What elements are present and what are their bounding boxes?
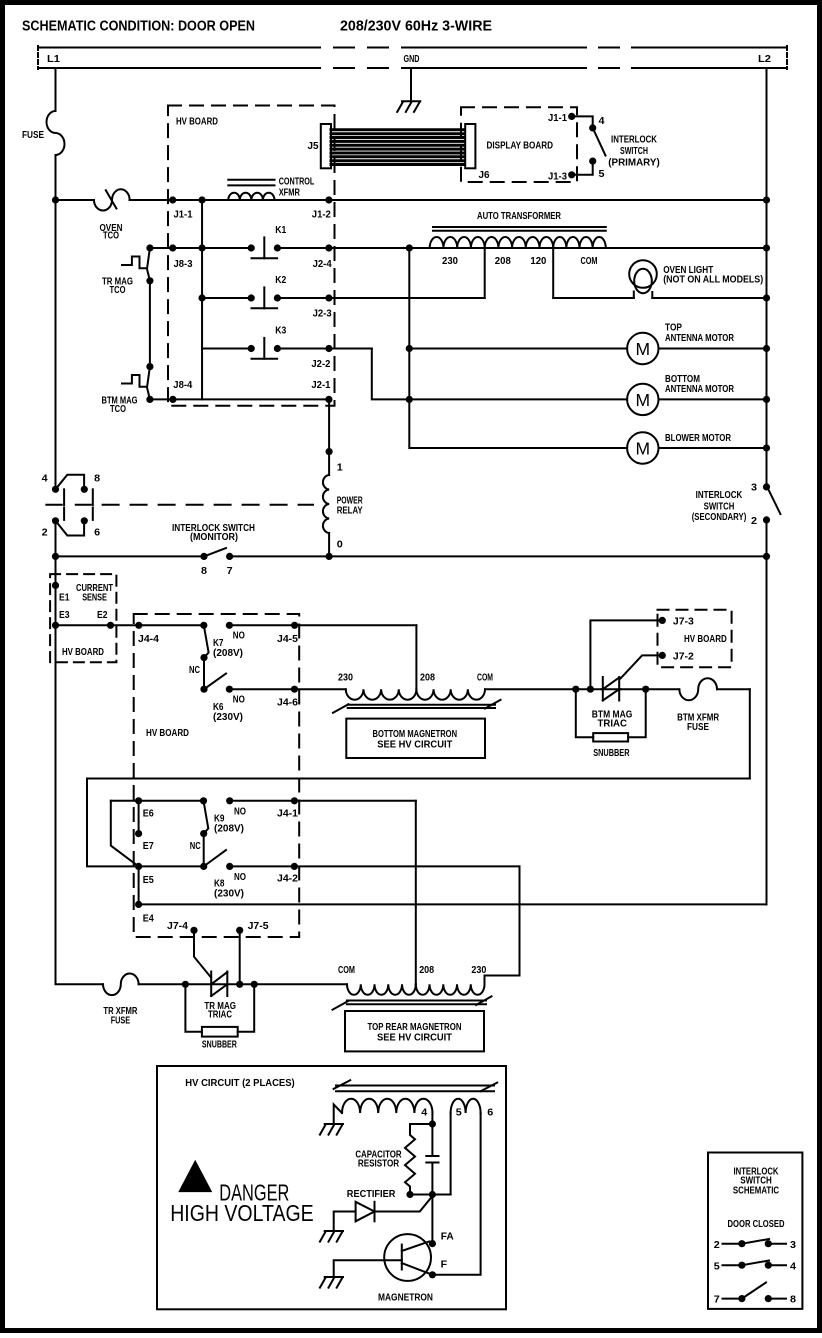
wire J2-2 jog down to bottom antenna row: [372, 349, 410, 400]
svg-text:NO: NO: [234, 805, 246, 817]
K9 NC contact: [200, 830, 207, 837]
switch blade (open): [204, 548, 226, 556]
junction node: [326, 448, 333, 455]
svg-text:J2-4: J2-4: [313, 258, 332, 270]
svg-text:5: 5: [714, 1260, 720, 1272]
relay K9 common: [200, 797, 207, 804]
svg-text:E2: E2: [97, 609, 108, 621]
transformer CONTROL XFMR: [228, 175, 314, 200]
snubber loop: [576, 689, 593, 737]
svg-text:COM: COM: [581, 255, 598, 267]
svg-text:COM: COM: [338, 964, 355, 976]
svg-text:E4: E4: [143, 913, 154, 925]
svg-text:J2-2: J2-2: [311, 358, 330, 370]
svg-text:230: 230: [471, 964, 486, 976]
svg-text:L1: L1: [47, 53, 60, 65]
svg-text:FUSE: FUSE: [22, 129, 44, 141]
svg-text:BLOWER MOTOR: BLOWER MOTOR: [665, 432, 731, 444]
wire E6 detour to E5: [111, 801, 139, 867]
junction motor feed vertical: [406, 244, 413, 251]
svg-text:(230V): (230V): [214, 887, 244, 899]
HV BOARD (triac driver) dashed box: [658, 610, 732, 667]
wire E5 row: [139, 865, 204, 867]
node J7-4: [190, 927, 197, 934]
wire NC link: [203, 834, 205, 867]
interlock switch monitor terminal 2: [52, 517, 59, 524]
svg-text:M: M: [636, 339, 651, 359]
wire GND drop: [410, 68, 412, 101]
node J1-1 (display board): [568, 113, 575, 120]
CURRENT SENSE dashed box: [50, 574, 116, 662]
svg-text:NO: NO: [234, 871, 246, 883]
svg-text:2: 2: [751, 515, 757, 527]
wire K6 NO / J4-6 row to transformer: [229, 688, 345, 690]
relay contact K3: [248, 325, 287, 359]
svg-text:L2: L2: [758, 53, 771, 65]
wire triac to fuse: [621, 688, 678, 690]
svg-text:7: 7: [714, 1294, 720, 1306]
node J1-1: [169, 196, 176, 203]
fuse BTM XFMR FUSE: [679, 678, 717, 700]
resistor (capacitor resistor): [405, 1124, 432, 1195]
wire J7-2 gate: [621, 655, 663, 678]
lamp OVEN LIGHT: [629, 260, 657, 298]
svg-text:M: M: [636, 390, 651, 410]
node J8-3: [169, 244, 176, 251]
wire lamp to L2: [652, 297, 766, 299]
connector J6: [465, 124, 475, 168]
svg-text:230: 230: [442, 255, 458, 267]
svg-text:FUSE: FUSE: [687, 721, 709, 733]
node F: [429, 1271, 436, 1278]
thermal cutout TR MAG TCO: [147, 248, 150, 281]
svg-text:J8-3: J8-3: [174, 258, 193, 270]
svg-text:208: 208: [419, 964, 434, 976]
transformer TOP REAR MAGNETRON primary: [333, 964, 492, 1010]
svg-text:6: 6: [487, 1107, 493, 1119]
wire K2 row left: [202, 297, 251, 299]
wire left rail to bottom row: [56, 625, 104, 984]
svg-text:(208V): (208V): [213, 647, 243, 659]
wire NO to J4-1 and down: [230, 800, 416, 802]
svg-text:0: 0: [337, 538, 343, 550]
svg-text:J1-1: J1-1: [174, 209, 193, 221]
svg-text:E5: E5: [143, 874, 154, 886]
svg-text:8: 8: [201, 565, 207, 577]
svg-text:NC: NC: [190, 840, 201, 852]
svg-text:TCO: TCO: [110, 403, 126, 415]
interlock switch secondary contact 2: [763, 516, 770, 523]
K7 NO contact: [226, 622, 233, 629]
svg-text:INTERLOCK: INTERLOCK: [611, 134, 657, 146]
node TR MAG TCO bottom: [146, 277, 153, 284]
junction L1/main row: [52, 196, 59, 203]
svg-text:5: 5: [599, 168, 605, 180]
wire main row to L2: [130, 199, 767, 201]
svg-text:K2: K2: [275, 274, 286, 286]
svg-text:HIGH VOLTAGE: HIGH VOLTAGE: [170, 1200, 314, 1226]
row 2-3 (closed): [714, 1239, 796, 1251]
K6 NO contact: [226, 686, 233, 693]
svg-text:J1-2: J1-2: [312, 209, 331, 221]
wire K1 feed row (J8-3): [150, 247, 251, 249]
junction snubber left: [572, 686, 579, 693]
ground: [320, 1124, 343, 1135]
connector J5: [321, 124, 331, 168]
svg-text:GND: GND: [404, 53, 420, 65]
svg-text:6: 6: [94, 527, 100, 539]
svg-text:(NOT ON ALL MODELS): (NOT ON ALL MODELS): [663, 273, 763, 285]
svg-text:7: 7: [227, 565, 233, 577]
svg-text:208: 208: [420, 672, 435, 684]
thermal cutout OVEN TCO: [94, 189, 130, 210]
svg-text:8: 8: [790, 1294, 796, 1306]
svg-text:DOOR CLOSED: DOOR CLOSED: [728, 1218, 785, 1230]
svg-text:FUSE: FUSE: [111, 1014, 130, 1026]
svg-text:1: 1: [337, 462, 343, 474]
svg-text:5: 5: [456, 1107, 462, 1119]
svg-text:3: 3: [751, 482, 757, 494]
interlock switch primary contact 5: [589, 158, 596, 165]
wire pin5 down: [450, 1113, 452, 1195]
svg-text:RECTIFIER: RECTIFIER: [347, 1188, 396, 1200]
svg-text:RELAY: RELAY: [337, 505, 363, 517]
ground symbol (chassis): [397, 101, 420, 112]
wire fuse to main row: [55, 155, 57, 200]
svg-text:HV BOARD: HV BOARD: [62, 646, 104, 658]
triac TR MAG TRIAC: [211, 972, 227, 997]
svg-text:8: 8: [94, 473, 100, 485]
resistor SNUBBER: [593, 733, 628, 741]
triac BTM MAG TRIAC: [603, 677, 619, 701]
junction snubber right: [642, 686, 649, 693]
K8 NO contact: [226, 863, 233, 870]
node J4-5: [291, 622, 298, 629]
wire fuse to corner: [717, 688, 750, 690]
filament winding: [451, 1099, 481, 1113]
junction power relay 0: [326, 553, 333, 560]
HV BOARD (lower) dashed box: [134, 614, 300, 937]
magnetron: [334, 1234, 431, 1281]
DISPLAY BOARD dashed box: [461, 107, 577, 182]
node E5: [135, 863, 142, 870]
wire J4-2 down to 230 end: [485, 866, 520, 984]
svg-text:K1: K1: [275, 224, 286, 236]
svg-text:4: 4: [42, 473, 48, 485]
svg-text:HV BOARD: HV BOARD: [176, 116, 218, 128]
svg-text:J6: J6: [479, 169, 490, 181]
ribbon cable J5-J6: [331, 130, 465, 165]
svg-text:E7: E7: [143, 840, 154, 852]
wire relay feed vertical: [201, 200, 203, 399]
node J4-4: [135, 622, 142, 629]
svg-text:J1-3: J1-3: [548, 170, 567, 182]
power relay coil: [323, 462, 363, 557]
wire E3-E2-J4-4 row: [56, 624, 204, 626]
wire F to pin 6: [432, 1113, 480, 1275]
ground: [320, 1231, 343, 1242]
svg-text:(MONITOR): (MONITOR): [190, 531, 238, 543]
K9 NO contact: [226, 797, 233, 804]
node J2-3: [325, 294, 332, 301]
K7 blade: [204, 625, 209, 657]
wire K8 NO / J4-2 row: [230, 865, 520, 867]
wire K3 left from feed vertical: [202, 348, 251, 350]
svg-text:COM: COM: [477, 672, 493, 684]
wire J7-4 gate: [194, 930, 211, 977]
relay contact K2: [248, 274, 287, 308]
diode RECTIFIER: [334, 1196, 433, 1231]
junction J7-5 drop: [236, 981, 243, 988]
svg-text:TRIAC: TRIAC: [598, 718, 628, 730]
wire oven light row: [553, 297, 634, 299]
svg-text:J8-4: J8-4: [173, 379, 192, 391]
svg-text:(208V): (208V): [214, 823, 244, 835]
wire 230 tap: [484, 248, 486, 298]
power bus bottom line: [38, 67, 300, 69]
node J1-3: [568, 171, 575, 178]
svg-text:E1: E1: [59, 591, 70, 603]
svg-text:230: 230: [338, 672, 353, 684]
svg-text:J4-6: J4-6: [277, 697, 298, 709]
wire contact 5 to J1-3: [572, 161, 593, 175]
svg-text:HV BOARD: HV BOARD: [146, 727, 189, 739]
svg-text:208/230V 60Hz 3-WIRE: 208/230V 60Hz 3-WIRE: [340, 19, 492, 35]
wire pin4 down: [431, 1113, 433, 1195]
wire J2-1 row: [150, 398, 329, 400]
node BTM MAG TCO bottom / J8-4 row: [146, 396, 153, 403]
thermal cutout BTM MAG TCO: [147, 367, 150, 400]
motor BOTTOM ANTENNA MOTOR: [409, 384, 766, 415]
transformer AUTO TRANSFORMER: [430, 210, 606, 267]
junction L2: [763, 553, 770, 560]
node row: [410, 1194, 451, 1196]
wire K3 out / J2-2 row: [277, 348, 371, 350]
node J7-3: [659, 617, 666, 624]
node E6: [135, 797, 142, 804]
wire NO to J4-5: [229, 624, 416, 626]
fuse FUSE (line fuse): [47, 111, 65, 155]
node E1: [52, 582, 59, 589]
mechanical link dashed: [103, 504, 313, 506]
wire return loop down: [749, 689, 751, 778]
junction L2/main row: [763, 196, 770, 203]
wire bottom row: [139, 983, 347, 985]
motor TOP ANTENNA MOTOR: [409, 333, 766, 364]
junction snubber right: [251, 981, 258, 988]
snubber loop: [185, 984, 202, 1031]
svg-text:SNUBBER: SNUBBER: [593, 747, 630, 759]
monitor switch contact 7: [226, 553, 233, 560]
svg-text:2: 2: [42, 527, 48, 539]
svg-text:SCHEMATIC CONDITION: DOOR OPEN: SCHEMATIC CONDITION: DOOR OPEN: [22, 19, 255, 35]
power bus L1-GND-L2 top line: [38, 47, 300, 49]
wire E6 row: [111, 800, 204, 802]
svg-text:(230V): (230V): [213, 711, 243, 723]
svg-text:SEE HV CIRCUIT: SEE HV CIRCUIT: [377, 1032, 453, 1044]
svg-text:J2-3: J2-3: [313, 308, 332, 320]
svg-text:4: 4: [790, 1260, 796, 1272]
svg-text:TRIAC: TRIAC: [208, 1009, 232, 1021]
wire left rail upper: [55, 200, 57, 489]
HV transformer secondary core: [334, 1080, 498, 1091]
motor BLOWER MOTOR: [627, 432, 766, 463]
junction relay feed vertical / K1 row: [198, 244, 205, 251]
wire K1 out / J2-4 row to auto transformer and L2: [277, 247, 766, 249]
junction snubber left: [182, 981, 189, 988]
junction main row / relay feed vertical: [198, 196, 205, 203]
junction K2 row: [198, 294, 205, 301]
svg-text:SWITCH: SWITCH: [620, 145, 648, 157]
bus right terminal mark: [786, 46, 788, 69]
svg-text:XFMR: XFMR: [279, 186, 300, 198]
relay K7 common: [200, 622, 207, 629]
node J7-2: [659, 652, 666, 659]
svg-text:K3: K3: [275, 325, 286, 337]
wire K2 out / J2-3 row to 230 tap: [277, 297, 484, 299]
node J4-1: [291, 797, 298, 804]
svg-text:ANTENNA MOTOR: ANTENNA MOTOR: [665, 383, 734, 395]
junction bottom antenna row: [406, 396, 413, 403]
svg-text:SENSE: SENSE: [82, 591, 107, 603]
svg-text:2: 2: [714, 1239, 720, 1251]
svg-text:J7-3: J7-3: [673, 616, 694, 628]
wire J7-5 drop: [239, 930, 241, 984]
row 5-4 (closed): [714, 1260, 796, 1272]
svg-text:(PRIMARY): (PRIMARY): [608, 156, 660, 168]
wire monitor row left: [56, 555, 205, 557]
svg-text:MAGNETRON: MAGNETRON: [378, 1292, 433, 1304]
relay K8 common: [200, 863, 207, 870]
node E7: [135, 830, 142, 837]
wire J7-3 to triac row: [590, 620, 662, 689]
relay contact K1: [248, 224, 287, 258]
wire left rail to monitor row: [55, 521, 57, 626]
wire TCO chain vertical: [149, 281, 151, 367]
svg-text:INTERLOCK: INTERLOCK: [696, 489, 743, 501]
ground: [320, 1277, 343, 1288]
junction top antenna row: [406, 345, 413, 352]
resistor SNUBBER: [202, 1027, 238, 1037]
svg-text:J4-4: J4-4: [138, 633, 159, 645]
svg-text:(SECONDARY): (SECONDARY): [692, 511, 747, 523]
interlock switch primary contact 4: [589, 124, 596, 131]
svg-text:SEE HV CIRCUIT: SEE HV CIRCUIT: [377, 738, 453, 750]
junction L2: [763, 294, 770, 301]
svg-text:4: 4: [421, 1107, 427, 1119]
svg-text:J4-5: J4-5: [277, 633, 298, 645]
switch blade (open): [593, 128, 606, 156]
interlock switch monitor terminal 8: [81, 486, 88, 493]
wire J1-1 to contact 4: [572, 116, 593, 128]
svg-text:J7-4: J7-4: [167, 920, 188, 932]
svg-text:J7-5: J7-5: [248, 920, 269, 932]
junction monitor row left: [52, 553, 59, 560]
svg-text:J5: J5: [308, 140, 319, 152]
svg-text:J4-2: J4-2: [277, 873, 298, 885]
svg-text:E6: E6: [143, 808, 154, 820]
svg-text:ANTENNA MOTOR: ANTENNA MOTOR: [665, 332, 734, 344]
svg-text:E3: E3: [59, 609, 70, 621]
svg-text:HV CIRCUIT (2 PLACES): HV CIRCUIT (2 PLACES): [185, 1077, 294, 1089]
fuse TR XFMR FUSE: [103, 974, 139, 996]
wire through triac: [602, 688, 622, 690]
wire NC link: [203, 658, 205, 690]
transformer (bottom magnetron primary): [333, 672, 501, 713]
K7 NC contact: [200, 654, 207, 661]
wire E5-E4 link: [138, 866, 140, 904]
node J2-1: [325, 396, 332, 403]
svg-text:TCO: TCO: [110, 284, 126, 296]
node BTM MAG TCO top: [146, 363, 153, 370]
wire E6-E7 link: [138, 801, 140, 834]
HV CIRCUIT box: [157, 1066, 506, 1309]
svg-text:NO: NO: [233, 629, 245, 641]
switch blade (open): [769, 491, 780, 514]
svg-text:SNUBBER: SNUBBER: [202, 1038, 237, 1050]
wire main row left: [56, 199, 95, 201]
monitor switch contact 8: [200, 553, 207, 560]
node J2-2: [325, 345, 332, 352]
svg-text:4: 4: [599, 115, 605, 127]
interlock switch secondary contact 3: [763, 483, 770, 490]
svg-text:SCHEMATIC: SCHEMATIC: [733, 1184, 780, 1196]
wire J4-1 down to 208 tap: [415, 801, 417, 985]
svg-text:J2-1: J2-1: [311, 379, 330, 391]
wire J4-5 down to 208 tap: [415, 625, 417, 689]
wire monitor row right: [230, 555, 767, 557]
row 7-8 (open): [714, 1283, 796, 1306]
K8 blade (open): [204, 850, 226, 866]
capacitor: [426, 1156, 438, 1163]
svg-text:DISPLAY BOARD: DISPLAY BOARD: [487, 140, 554, 152]
svg-text:M: M: [636, 439, 651, 459]
svg-text:3: 3: [790, 1239, 796, 1251]
wire node to FA: [431, 1195, 433, 1244]
node J7-5: [236, 927, 243, 934]
wire transformer to triac row: [485, 688, 602, 690]
svg-text:RESISTOR: RESISTOR: [358, 1158, 400, 1170]
svg-text:TCO: TCO: [103, 230, 119, 242]
K6 blade (open): [204, 674, 226, 690]
svg-text:NC: NC: [189, 664, 200, 676]
danger triangle: [180, 1162, 211, 1191]
node J4-2: [291, 863, 298, 870]
bridge 2-6: [56, 521, 85, 536]
svg-text:HV BOARD: HV BOARD: [684, 633, 727, 645]
node J8-4: [169, 396, 176, 403]
monitor contact plates: [46, 489, 92, 520]
svg-text:FA: FA: [441, 1230, 454, 1242]
label box TOP REAR MAGNETRON: [345, 1011, 484, 1051]
interlock switch monitor terminal 4: [52, 486, 59, 493]
relay K6 common: [200, 686, 207, 693]
junction L2: [763, 244, 770, 251]
svg-text:F: F: [441, 1259, 448, 1271]
junction cap/res top: [429, 1120, 436, 1127]
bridge 4-8: [56, 475, 85, 490]
node E3: [52, 622, 59, 629]
node J1-2: [325, 196, 332, 203]
node E4: [135, 901, 142, 908]
label box BOTTOM MAGNETRON: [346, 719, 485, 758]
wire L2 drop: [766, 68, 768, 487]
interlock switch monitor terminal 6: [81, 517, 88, 524]
wire long return to E5: [87, 779, 750, 867]
HV winding: [334, 1099, 433, 1124]
wire J2-1 to power relay: [328, 399, 330, 475]
wire COM tap: [552, 248, 554, 298]
